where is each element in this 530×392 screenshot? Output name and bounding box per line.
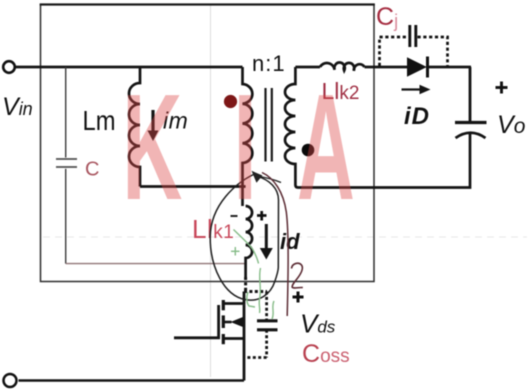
transformer secondary winding [285,67,298,188]
wire: Llk2 to diode [365,66,408,69]
hand-drawn 2 [292,263,303,288]
green sketch diagonal [234,230,259,264]
green sketch squiggle 1 [259,268,260,313]
transistor Q1 source lead [225,337,245,340]
primary dot (red) [224,95,237,108]
secondary dot (black) [302,144,315,157]
svg-text:Vds: Vds [300,309,336,339]
hand-drawn arrowhead [252,171,263,183]
svg-text:id: id [280,229,300,254]
minus sign [231,215,238,217]
input terminal bottom [4,374,17,387]
transistor Q1 channel segments [222,300,225,310]
svg-text:Coss: Coss [302,340,350,368]
capacitor Coss dashed connections [244,292,267,358]
wire: bottom rail [19,379,245,381]
green sketch squiggle 2 [247,292,255,307]
plus sign Llk1 [257,214,267,217]
green sketch plus [231,250,240,252]
hand-drawn pen vertical stroke [262,173,288,317]
diode D [407,57,427,76]
inductor Llk2 [320,62,365,70]
capacitor C wire upper [65,67,67,158]
capacitor Co curved plate [456,133,486,138]
wire: Lm bottom to primary bottom [140,185,246,188]
inductor Lm [129,67,140,187]
svg-text:A: A [297,63,355,232]
inductor Llk1 [246,206,253,277]
wire: Llk1 to drain (dashed) [244,277,267,292]
green sketch squiggle 3 [272,301,274,319]
current im arrow [151,110,154,131]
transformer primary winding [243,67,253,206]
transistor Q1 gate lead and gate bar [174,305,219,338]
hand-drawn diagonal stroke [256,176,281,183]
transistor Q1 drain lead [225,292,245,304]
current id arrow [265,224,268,249]
capacitor C wire lower [65,169,67,264]
svg-text:iD: iD [404,103,430,130]
transformer core [264,88,266,162]
hand-drawn ellipse around Llk1 [210,175,278,301]
svg-text:Lm: Lm [83,105,116,136]
svg-text:Vin: Vin [2,93,33,121]
svg-text:Vo: Vo [497,111,526,139]
capacitor Cj dashed branch [380,37,448,66]
wire: top rail Vin+ [16,66,243,69]
wire: source/drain vertical [243,305,246,381]
wire: secondary top [295,66,320,69]
capacitor C [56,158,77,160]
plus sign Vds [293,296,304,299]
faint scan artifact vertical line [210,5,212,377]
wire: output cap top [469,67,472,122]
transistor Q1 body arrow [225,321,232,324]
wire: C bottom to drain node [66,263,245,265]
current iD arrow [402,88,421,90]
svg-text:Cj: Cj [376,3,398,31]
plus sign output [496,86,508,89]
svg-text:n:1: n:1 [252,51,286,76]
svg-text:K: K [122,63,182,232]
capacitor Coss plates [257,319,278,322]
transformer model box [41,5,375,282]
svg-text:C: C [85,159,99,181]
capacitor Cj plates [408,25,411,47]
input terminal top [3,61,15,73]
wire: diode to output [429,66,472,69]
svg-text:I: I [234,63,257,232]
faint scan artifact dashed horizontal [43,236,527,238]
wire: output cap bottom / return rail [298,132,470,188]
capacitor Co top plate [455,121,487,124]
